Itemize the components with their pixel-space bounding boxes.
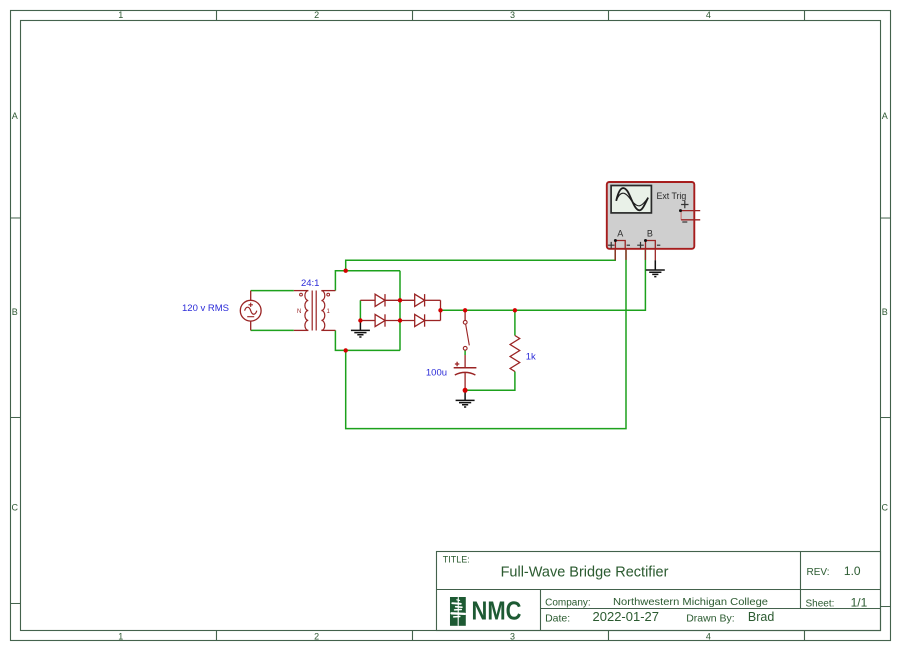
scope stub B- [654, 250, 656, 261]
svg-text:3: 3 [510, 631, 515, 641]
scope terminal dots [679, 209, 682, 212]
svg-text:C: C [12, 502, 19, 512]
junction: resistor tap node [513, 308, 517, 312]
svg-text:B: B [647, 229, 653, 239]
wire V1+ to T1 primary top [251, 290, 294, 292]
wire output node to resistor R1 top [514, 310, 516, 335]
svg-text:Brad: Brad [748, 610, 774, 624]
wire node N1 up to scope A+ [346, 250, 616, 271]
svg-text:Company:: Company: [545, 598, 591, 609]
svg-text:100u: 100u [426, 367, 447, 378]
svg-text:Ext Trig: Ext Trig [657, 191, 687, 201]
junction: bridge mid bottom [398, 318, 402, 322]
svg-text:NMC: NMC [471, 596, 521, 626]
scope terminal wires [615, 211, 700, 250]
wire bridge left leg [359, 300, 361, 320]
svg-text:4: 4 [706, 631, 711, 641]
scope stub A- [625, 250, 627, 260]
svg-text:Full-Wave Bridge Rectifier: Full-Wave Bridge Rectifier [501, 564, 669, 580]
wire switch S1 to C1 [464, 350, 466, 355]
svg-text:REV:: REV: [806, 567, 829, 578]
svg-text:B: B [12, 307, 18, 317]
oscilloscope XSC1 [607, 182, 700, 250]
wire bridge right leg [440, 300, 442, 320]
resistor R1 [510, 336, 520, 372]
capacitor C1 (polarized 100u) [454, 355, 477, 390]
svg-text:1: 1 [118, 631, 123, 641]
switch S1 [463, 310, 469, 350]
wire T1 secondary top to node N1 [335, 271, 400, 291]
svg-text:A: A [882, 111, 888, 121]
svg-text:C: C [882, 502, 889, 512]
ground GND2 (capacitor) [456, 390, 475, 407]
NMC logo [450, 596, 522, 626]
wire R1 bottom to capacitor C1 ground node [465, 372, 515, 391]
scope +/- marks [608, 201, 689, 249]
junction: bridge left / ground node [358, 318, 362, 322]
scope screen sine traces [616, 188, 648, 210]
ground GND3 (scope B-) [646, 260, 665, 276]
svg-text:1: 1 [118, 10, 123, 20]
svg-text:2022-01-27: 2022-01-27 [592, 609, 659, 624]
junction: capacitor ground node [463, 388, 468, 393]
junction: bridge mid top [398, 298, 402, 302]
svg-text:120 v RMS: 120 v RMS [182, 303, 229, 314]
svg-text:A: A [617, 229, 623, 239]
svg-text:N: N [297, 309, 301, 315]
wire T1 secondary bottom to node N2 [335, 330, 400, 350]
transformer T1 [294, 290, 336, 330]
svg-text:TITLE:: TITLE: [443, 554, 470, 564]
svg-text:1/1: 1/1 [851, 596, 868, 610]
svg-text:A: A [12, 111, 18, 121]
diode D4 (bottom-right) [415, 314, 441, 326]
wire node N1 to bridge mid (vertical through bridge) [399, 271, 401, 351]
junction: secondary top node [344, 268, 348, 272]
svg-text:3: 3 [510, 10, 515, 20]
svg-text:2: 2 [314, 631, 319, 641]
junction: secondary bottom node [343, 348, 347, 352]
wire node N2 bottom rail to scope A- [346, 250, 626, 429]
diode D3 (bottom-left) [360, 314, 414, 326]
scope stub B+ [644, 250, 646, 260]
wire bridge output to scope B+ [441, 250, 646, 311]
diode D1 (top-left) [360, 294, 414, 306]
scope stub A+ [614, 250, 616, 261]
svg-text:4: 4 [706, 10, 711, 20]
wire V1- to T1 primary bottom [251, 329, 294, 331]
ground GND1 (bridge) [351, 320, 370, 337]
svg-text:1.0: 1.0 [844, 564, 861, 578]
svg-text:B: B [882, 307, 888, 317]
svg-text:24:1: 24:1 [301, 278, 320, 289]
svg-text:2: 2 [314, 10, 319, 20]
svg-text:Date:: Date: [545, 613, 570, 625]
svg-text:Drawn By:: Drawn By: [686, 613, 734, 625]
svg-text:1k: 1k [526, 352, 536, 363]
junction: switch tap node [463, 308, 467, 312]
diode D2 (top-right) [415, 294, 441, 306]
AC source V1 [240, 291, 261, 331]
svg-text:Northwestern Michigan College: Northwestern Michigan College [613, 597, 768, 608]
junction: bridge output node [438, 308, 442, 312]
svg-text:Sheet:: Sheet: [805, 599, 834, 610]
